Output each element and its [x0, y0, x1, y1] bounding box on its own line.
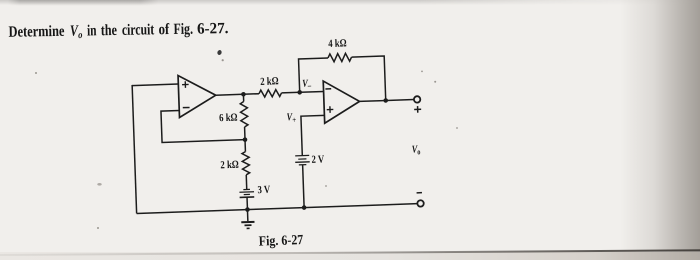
- svg-text:Vo: Vo: [412, 144, 421, 156]
- svg-text:3 V: 3 V: [257, 184, 271, 197]
- svg-text:6-27.: 6-27.: [197, 20, 229, 38]
- svg-text:V–: V–: [302, 79, 311, 91]
- svg-text:2 kΩ: 2 kΩ: [260, 75, 279, 88]
- svg-text:Determine: Determine: [8, 23, 64, 42]
- svg-text:6 kΩ: 6 kΩ: [219, 112, 238, 125]
- svg-text:circuit: circuit: [122, 21, 155, 39]
- svg-text:in: in: [87, 22, 97, 39]
- svg-text:Fig. 6-27: Fig. 6-27: [258, 231, 304, 249]
- svg-text:Fig.: Fig.: [173, 21, 193, 38]
- svg-text:4 kΩ: 4 kΩ: [328, 37, 347, 50]
- svg-text:V+: V+: [286, 112, 296, 125]
- svg-text:2 kΩ: 2 kΩ: [220, 159, 239, 172]
- svg-text:of: of: [158, 21, 169, 39]
- svg-text:o: o: [78, 30, 83, 41]
- svg-text:2 V: 2 V: [311, 154, 325, 167]
- svg-text:the: the: [101, 22, 117, 40]
